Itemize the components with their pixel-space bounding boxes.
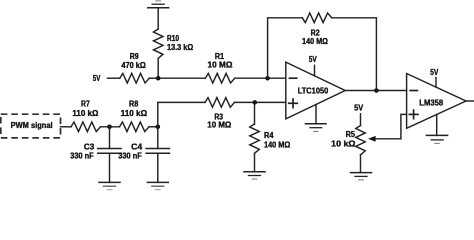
wire C3 to ground [109,153,111,182]
5V stub U1 [314,65,316,76]
ground U1 [305,124,326,132]
wire node A to R1 [158,77,205,79]
resistor R2 [302,13,332,23]
wire ground to R10 [157,8,159,29]
svg-text:13.3 kΩ: 13.3 kΩ [167,43,194,52]
minus sign U1 [289,77,296,79]
resistor R4 [250,124,260,153]
ground C4 [147,182,168,189]
svg-text:10 MΩ: 10 MΩ [207,121,232,130]
svg-text:PWM signal: PWM signal [11,121,53,130]
svg-text:R9: R9 [130,52,139,61]
svg-text:R2: R2 [311,28,321,37]
wire R4 to ground [254,153,256,172]
resistor R9 [120,73,150,83]
wire R1 to node B and op-amp minus input [235,77,286,79]
node E [156,125,161,130]
ground (top, for R10, pointing up) [148,1,169,8]
wire R10 to node A [157,58,159,78]
svg-text:140 MΩ: 140 MΩ [264,140,291,149]
ground R4 [244,172,265,179]
node D [107,125,112,130]
wire U2 output [466,100,474,102]
svg-text:C4: C4 [131,142,143,151]
resistor R3 [205,98,235,108]
op-amp U1 LTC1050 triangle [286,62,345,119]
node F [253,100,258,105]
minus sign U2 [410,90,417,92]
svg-text:140 MΩ: 140 MΩ [302,37,328,46]
wire PWM box to R7 [61,126,72,128]
wire R9 to node A [149,77,158,79]
wire node E down to C4 [157,127,159,149]
wire feedback right leg [332,18,377,91]
svg-text:R8: R8 [129,100,139,109]
wire wiper to U2 plus input [401,114,407,138]
wire R5 to ground [360,155,362,173]
wire node E up to R3 [158,102,205,126]
potentiometer R5 [356,126,366,155]
svg-text:110 kΩ: 110 kΩ [72,109,99,118]
wire node D down to C3 [109,127,111,149]
op-amp U2 LM358 triangle [407,74,466,129]
capacitor C3 [98,149,121,154]
plus sign U1 [289,99,298,108]
svg-text:R5: R5 [346,130,356,139]
wire node F down to R4 [254,102,256,124]
svg-text:5V: 5V [93,74,101,83]
node A [156,76,161,81]
ground stub U1 [315,105,317,124]
svg-text:C3: C3 [84,142,95,151]
resistor R10 [153,29,163,58]
resistor R1 [205,73,235,83]
ground R5 [351,173,372,180]
PWM signal source box [1,114,61,138]
wire 5V to R5 [360,114,362,126]
resistor R8 [120,122,150,132]
capacitor C4 [146,149,169,154]
wiper arrow R5 [368,136,401,142]
5V stub U2 [435,78,437,88]
resistor R7 [71,122,101,132]
svg-text:110 kΩ: 110 kΩ [121,109,148,118]
wire R7 to node D [101,126,120,128]
wire U1 output to U2 minus input [345,90,406,92]
node B [265,76,270,81]
ground C3 [99,182,120,189]
wire 5V to R9 [108,77,120,79]
wire R3 to node F and op-amp plus input [235,101,286,103]
svg-text:330 nF: 330 nF [70,152,93,161]
wire R8 to node E [149,126,158,128]
svg-text:R7: R7 [81,100,90,109]
ground U2 [426,135,447,143]
svg-text:5V: 5V [430,68,439,77]
wire feedback left leg [268,18,303,78]
svg-text:LM358: LM358 [419,98,443,107]
svg-text:330 nF: 330 nF [118,152,142,161]
node C [374,88,379,93]
svg-text:5V: 5V [354,103,364,112]
svg-text:470 kΩ: 470 kΩ [121,61,146,70]
ground stub U2 [436,115,438,136]
svg-text:R4: R4 [264,131,274,140]
svg-text:LTC1050: LTC1050 [298,86,329,95]
svg-text:10 MΩ: 10 MΩ [208,60,234,69]
svg-text:5V: 5V [309,55,318,64]
wire C4 to ground [157,153,159,182]
plus sign U2 [409,110,418,119]
svg-text:10 kΩ: 10 kΩ [331,140,356,149]
